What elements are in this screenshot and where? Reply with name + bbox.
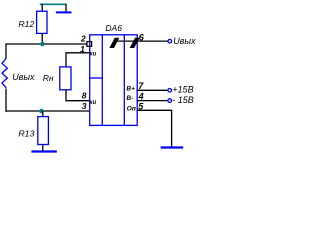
wire R13 bottom lead [42,145,44,151]
terminal T top [65,4,67,12]
terminal +15V [168,89,172,93]
wire pin1 to Rn [66,53,90,67]
svg-text:4: 4 [138,91,144,101]
node junction bottom [39,109,44,114]
svg-text:R13: R13 [18,129,34,139]
IC internal signal line pin6 [117,40,168,42]
wire R12 top lead [41,4,43,12]
terminal -15V [168,99,172,103]
resistor Rn [60,67,71,90]
svg-text:Uвых: Uвых [173,36,196,46]
svg-text:Rн: Rн [43,73,54,83]
IC DA6 outline [90,35,138,126]
resistor R13 [38,117,49,145]
svg-text:Оп: Оп [127,105,136,112]
svg-text:Uвых: Uвых [12,72,35,82]
svg-text:1: 1 [80,44,85,54]
wire top teal net [40,3,66,5]
svg-text:3: 3 [82,101,87,111]
svg-text:R12: R12 [18,19,34,29]
wire R12 bottom lead [41,33,43,44]
svg-text:В+: В+ [126,86,135,93]
svg-text:+15В: +15В [172,85,193,95]
svg-text:2: 2 [80,33,86,43]
IC slash symbol 2 [130,38,140,48]
wire Rn bottom to pin8 [66,90,90,101]
svg-text:- 15В: - 15В [172,95,194,105]
wire bottom horizontal to pin3 [6,110,90,112]
svg-text:кu: кu [90,51,97,57]
pin 2 pad [87,42,92,47]
svg-text:В-: В- [126,95,133,102]
ground right [161,146,184,148]
wire left vertical upper [5,43,7,58]
pin 4 wire [137,100,168,102]
pin 5 wire [137,110,172,147]
svg-text:DA6: DA6 [105,23,122,33]
resistor R12 [37,11,47,33]
node junction top [40,42,45,47]
svg-text:кu: кu [90,100,97,106]
wire left vertical lower [5,89,7,112]
wire left top horizontal to pin2 [6,43,88,45]
pin 7 wire [137,89,168,91]
ground left [31,150,56,152]
wire R13 top lead [42,111,44,117]
svg-text:8: 8 [82,91,87,101]
IC slash symbol 1 [109,38,119,48]
source Uvych zigzag [2,59,7,88]
terminal Uvych output [168,39,172,43]
